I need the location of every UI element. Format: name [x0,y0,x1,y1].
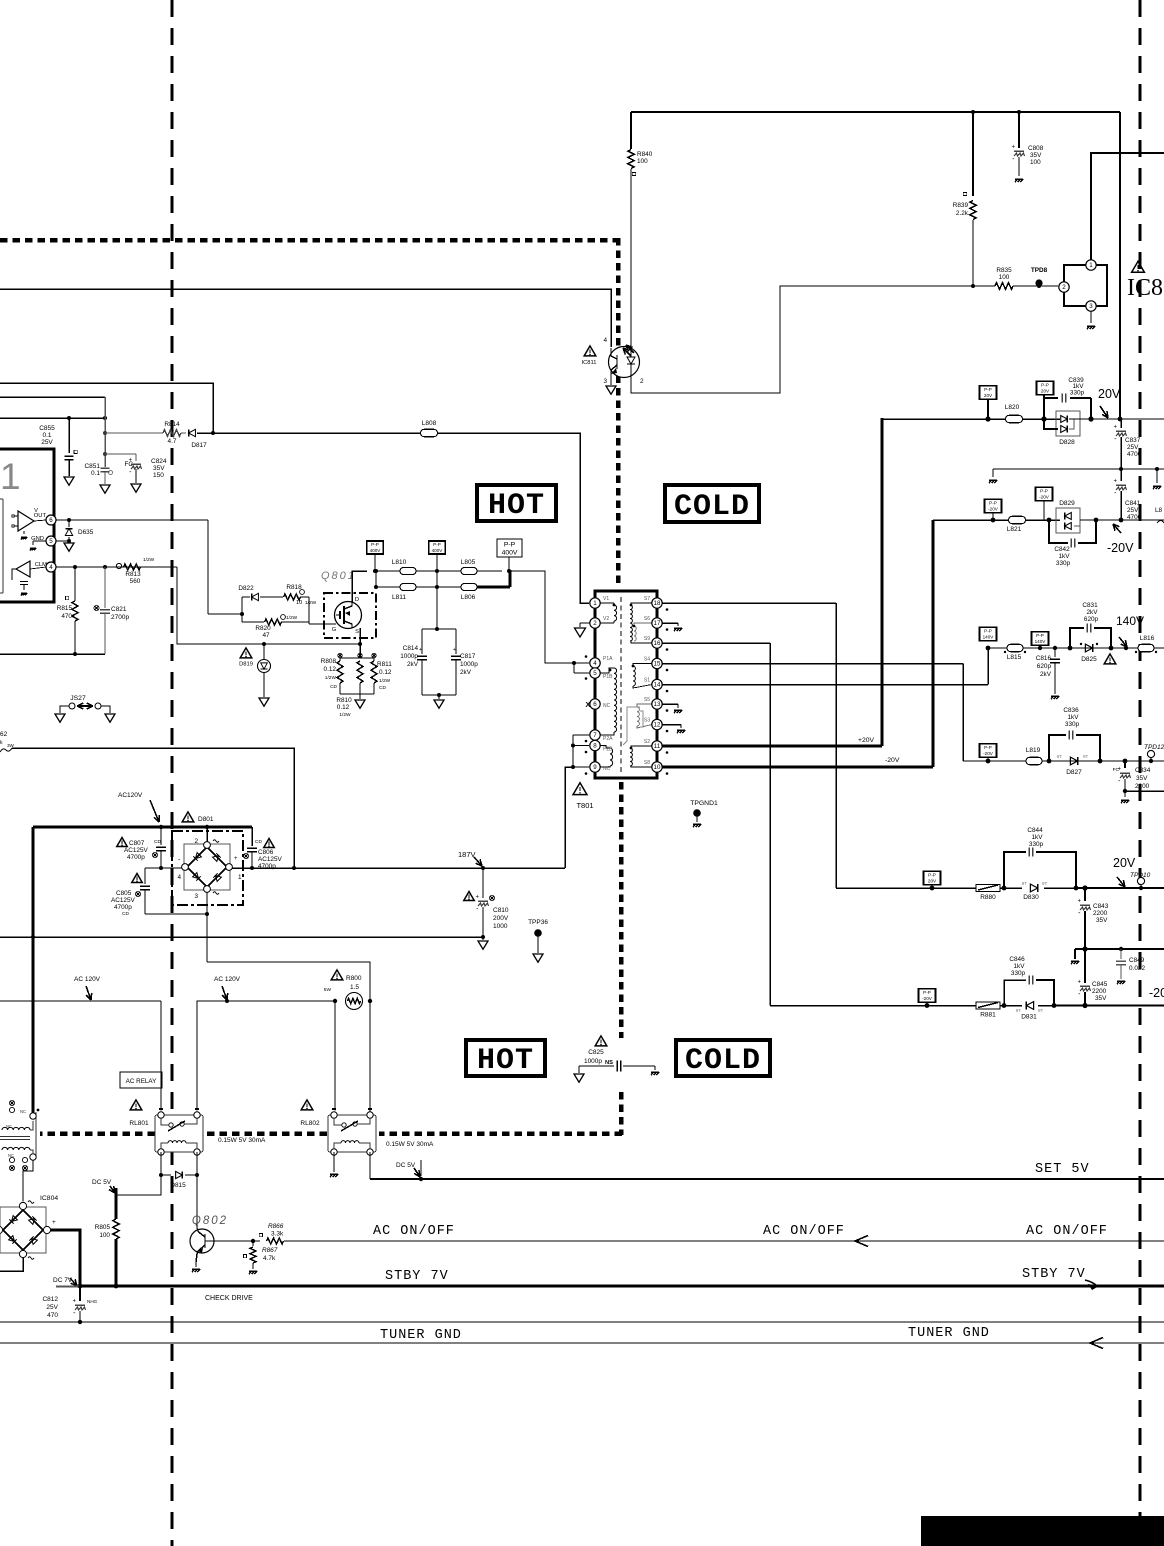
svg-text:AC125V: AC125V [124,847,149,854]
wire T801 pin12 to ground [662,724,681,726]
svg-text:1/2W: 1/2W [143,557,155,563]
svg-text:470: 470 [47,1312,58,1319]
svg-text:2700p: 2700p [111,614,129,621]
svg-text:C855: C855 [39,425,55,432]
svg-text:R818: R818 [286,584,302,591]
capacitor C844 1kV 330p snubber [1004,852,1026,888]
svg-text:35V: 35V [1030,152,1042,159]
resistor R815 470 [74,567,76,601]
junction Q801 source [358,642,362,646]
svg-text:6: 6 [593,701,597,708]
wire Q801 drain to L810/L811 [352,571,367,602]
svg-text:9: 9 [593,764,597,771]
capacitor C842 1kV 330p snubber [1049,520,1068,543]
ground C855 [64,477,74,485]
ground JS27 right [105,714,115,722]
svg-text:X: X [585,700,590,709]
wire from left page to D817 feed [0,383,213,433]
svg-text:COLD: COLD [685,1044,761,1078]
inductor L811 [376,586,400,588]
svg-text:L820: L820 [1005,404,1020,411]
COLD label upper [665,485,759,522]
svg-text:20V: 20V [928,878,937,883]
wire Q801 source down [359,628,361,658]
inductor L816 [1138,644,1154,652]
T801 pin 18 [652,598,662,608]
snubber rail top [422,628,456,630]
junction P-P 20V [985,416,990,421]
resistor R818 10 1/2W [260,596,283,598]
svg-text:25V: 25V [1127,444,1139,451]
svg-text:20V: 20V [1098,387,1121,401]
svg-text:C824: C824 [151,458,167,465]
ground C825 left [578,1066,580,1073]
capacitor C834 35V 2200 electrolytic [1124,761,1126,768]
T801 left winding P2B lower [610,748,613,766]
svg-text:P-P: P-P [1036,633,1044,638]
test point box P-P 140V 2 [1032,632,1049,646]
svg-text:P-P: P-P [984,629,992,634]
svg-text:D801: D801 [198,816,214,823]
diode D825 [1085,644,1092,652]
test point box P-P 400V large [497,539,522,557]
svg-text:STBY 7V: STBY 7V [1022,1267,1086,1282]
svg-text:4: 4 [603,337,607,344]
svg-text:150: 150 [153,472,164,479]
svg-text:NC: NC [603,703,611,709]
svg-text:1kV: 1kV [1031,834,1043,841]
T801 pin 11 [652,741,662,751]
svg-text:C831: C831 [1082,602,1098,609]
wire 140V rail [988,647,1164,649]
junction C837 bottom [1119,467,1123,471]
svg-text:100: 100 [637,158,648,165]
svg-text:1: 1 [0,456,21,497]
svg-text:0.1: 0.1 [91,470,100,477]
svg-text:4: 4 [177,874,181,881]
ground C810 [482,937,484,940]
ground C825 right [654,1066,656,1070]
wire D817 to L808 [213,432,421,434]
svg-text:CD: CD [122,911,129,917]
svg-text:P-P: P-P [504,542,516,549]
svg-text:RL802: RL802 [300,1120,320,1127]
svg-text:C849: C849 [1129,957,1145,964]
diode D817 [181,432,186,434]
svg-text:D831: D831 [1021,1014,1037,1021]
wire RL801 right riser to R800 [197,1001,335,1110]
svg-text:CD: CD [255,839,262,845]
T801 pin 6 NC [590,699,600,709]
wire R881 rail [770,1005,980,1007]
ground 20V return right [1156,469,1158,483]
svg-text:R810: R810 [336,697,352,704]
svg-text:C836: C836 [1063,707,1079,714]
capacitor C841 25V 4700 electrolytic [1120,469,1122,481]
resistor R867 4.7k [252,1241,254,1246]
wire RL801 coil left to D815 [160,1152,162,1175]
test point box P-P 20V above D828 [1037,381,1054,395]
dual diode D829 [1056,508,1080,533]
svg-text:AC ON/OFF: AC ON/OFF [373,1224,455,1239]
protection device D819 [240,648,252,658]
svg-text:S9: S9 [644,636,650,642]
wire from left page at y397 [0,396,105,398]
fusible resistor R800 1.5 5W [331,970,343,980]
STBY 7V arrow [1085,1280,1097,1286]
svg-text:400V: 400V [432,548,444,553]
svg-text:4: 4 [593,660,597,667]
svg-text:C851: C851 [84,463,100,470]
svg-text:-20V: -20V [1107,541,1134,555]
wire gate node B to Q801 gate [308,597,310,624]
wire top rail corner down to 20V rail [1119,112,1121,419]
svg-text:R820: R820 [255,625,271,632]
svg-text:G: G [332,627,337,633]
svg-text:1/2W: 1/2W [286,615,298,621]
ground C816 [1051,695,1059,697]
junction C834 tap [1123,759,1128,764]
junction pin7/8 link [571,744,575,748]
svg-text:C821: C821 [111,606,127,613]
ground C834 [1124,791,1126,797]
svg-text:400V: 400V [370,548,382,553]
junction D831 input [1002,1003,1007,1008]
svg-text:1: 1 [593,600,597,607]
capacitor C831 2kV 620p snubber [1070,628,1084,648]
HOT/COLD isolation dotted border right edge upper [616,238,621,586]
svg-text:C808: C808 [1028,145,1044,152]
T801 polarity dots [666,608,669,611]
connector pin 1 [1086,260,1096,270]
svg-text:TPD8: TPD8 [1031,267,1048,274]
wire Q802 collector [197,1228,198,1230]
inductor L819 [1026,757,1042,765]
svg-text:+: + [1011,145,1015,151]
test point box P-P 400V small 1 [367,541,384,554]
wire AC hot rail riser thick [32,827,35,1116]
svg-text:1.5: 1.5 [350,984,359,991]
test point box P-P -20V on R881 rail [919,989,936,1003]
wire pin6 node down to gate network [207,520,209,614]
svg-text:4: 4 [49,564,53,571]
svg-text:D822: D822 [238,585,254,592]
resistor R840 100 [630,112,632,149]
D801 pin 1 [226,864,233,871]
svg-text:OUT: OUT [34,513,47,519]
wire T801 pin15 run [662,663,963,665]
svg-text:+: + [419,647,422,653]
COLD label lower [676,1040,770,1076]
wire AC line to bridge node [12,748,294,868]
svg-text:2: 2 [194,838,198,845]
svg-text:R800: R800 [346,975,362,982]
wire left page to IC811 collector [0,289,611,347]
svg-text:1000p: 1000p [460,661,478,668]
svg-text:20V: 20V [1041,388,1050,393]
svg-text:+: + [72,1299,76,1305]
HOT/COLD isolation dotted border right edge middle [619,782,624,1038]
svg-text:R881: R881 [980,1012,996,1019]
junction C855 top [67,416,71,420]
svg-text:-20V: -20V [983,751,994,756]
diode D830 [1030,884,1037,892]
capacitor C816 620p 2kV [1054,648,1056,657]
svg-text:4.7k: 4.7k [263,1255,276,1262]
junction DC7V node [78,1284,83,1289]
svg-text:2: 2 [640,378,644,385]
svg-text:COLD: COLD [674,490,750,524]
svg-text:187V: 187V [458,850,476,859]
svg-text:C810: C810 [493,907,509,914]
inductor L805 [461,568,477,575]
junction C843 top [1082,885,1087,890]
relay RL802 [301,1100,313,1110]
svg-text:IC811: IC811 [581,360,596,366]
HOT/COLD isolation dotted border right edge lower [619,1092,624,1135]
source resistor rail bottom [340,693,374,695]
svg-text:P-P: P-P [1040,489,1048,494]
resistor R810 0.12 1/2W [358,653,362,657]
wire RL802 coil right to SET5V rail [369,1152,371,1179]
connector pin 2 [1059,282,1069,292]
junction D827 input [1047,759,1052,764]
svg-text:AC125V: AC125V [258,856,283,863]
svg-text:DC 5V: DC 5V [396,1162,416,1169]
junction C810 bottom [481,935,485,939]
wire T801 pin17 to ground [662,622,678,624]
transformer T801 core dashed line [620,597,622,773]
svg-text:D825: D825 [1081,656,1097,663]
svg-text:620p: 620p [1084,616,1099,623]
svg-text:+: + [1113,425,1117,431]
svg-text:2.2k: 2.2k [956,210,969,217]
svg-text:P-P: P-P [928,873,936,878]
svg-text:P-P: P-P [371,542,379,547]
svg-text:+: + [1077,899,1081,905]
snubber rail bottom [422,694,456,696]
svg-text:CD: CD [330,684,337,690]
inductor L806 [461,584,477,591]
junction C845 bottom [1082,1003,1087,1008]
svg-text:25V: 25V [41,439,53,446]
svg-text:2kV: 2kV [407,661,419,668]
black block bottom right [921,1516,1164,1546]
junction C843 bottom [1082,946,1087,951]
wire T801 pin18 run [662,602,836,604]
svg-text:T801: T801 [576,801,593,810]
HOT label upper [477,485,556,521]
svg-text:L819: L819 [1026,747,1041,754]
svg-text:D815: D815 [170,1182,186,1189]
test point box P-P -20V above D829 [1036,487,1053,501]
wire T801 pin14 run [662,684,988,686]
svg-text:R880: R880 [980,894,996,901]
connector IC8 box [1064,265,1107,306]
svg-text:13: 13 [654,701,661,708]
svg-text:L821: L821 [1007,526,1022,533]
svg-text:NS: NS [605,1060,613,1066]
svg-text:0.022: 0.022 [1129,965,1145,972]
svg-text:-20V: -20V [922,996,933,1001]
svg-text:3: 3 [194,893,198,900]
diode D827 [1070,757,1077,765]
svg-text:5: 5 [593,670,597,677]
junction P-P -20V [991,518,996,523]
capacitor C825 1000p NS isolation [595,1036,607,1046]
diode D822 [242,596,250,598]
junction D830 output [1074,886,1079,891]
svg-text:9T: 9T [1083,754,1089,759]
T801 pin 14 [652,679,662,689]
svg-text:R813: R813 [125,571,141,578]
resistor R805 100 [113,1219,119,1239]
svg-text:12: 12 [654,722,661,729]
svg-text:+: + [234,856,238,862]
wire CLM pin4 run [56,566,177,568]
svg-text:C805: C805 [116,890,132,897]
svg-text:L8: L8 [1155,507,1163,514]
ground below D635 [64,543,74,551]
ground D819 [259,698,269,706]
snubber riser [436,571,438,629]
svg-text:D829: D829 [1059,500,1075,507]
ground snubber [434,700,444,708]
svg-text:200V: 200V [493,915,509,922]
svg-text:R840: R840 [637,151,653,158]
svg-text:DC 7V: DC 7V [53,1277,73,1284]
wire D815 to DC5V rail [116,1175,161,1195]
svg-text:330p: 330p [1065,721,1080,728]
svg-text:15: 15 [654,661,661,668]
junction primary node [507,569,511,573]
capacitor C843 2200 35V electrolytic [1084,888,1086,901]
svg-text:IC8: IC8 [1127,275,1163,301]
svg-text:TPGND1: TPGND1 [690,800,718,807]
test point box P-P 400V small 2 [429,541,446,554]
svg-text:TUNER GND: TUNER GND [908,1326,990,1341]
svg-text:330p: 330p [1011,970,1026,977]
svg-text:+: + [475,895,479,901]
svg-text:4700: 4700 [1127,514,1142,521]
test point box P-P 20V on R880 rail [924,871,941,885]
wire C805 return to pin3 node [145,913,207,915]
capacitor C836 1kV 330p snubber [1049,735,1066,761]
capacitor C849 0.022 [1120,949,1122,959]
capacitor C846 1kV 330p snubber [1004,980,1026,1006]
wire RL801 right to Q802 collector [196,1175,198,1229]
junction D825 output [1109,646,1114,651]
svg-text:HOT: HOT [477,1044,534,1078]
wire top supply rail [631,111,1120,113]
junction 140V riser top [986,646,991,651]
T801 pin 4 [590,658,600,668]
svg-text:-20V: -20V [1039,494,1050,499]
junction R800 left [333,999,337,1003]
svg-text:+: + [1117,767,1121,773]
svg-text:S7: S7 [644,596,650,602]
wire C834 return [1125,790,1164,792]
wire T801 pin13 to ground [662,703,678,705]
AC ON/OFF arrow [855,1236,868,1247]
svg-text:2kV: 2kV [460,669,472,676]
inductor L808 [421,429,438,437]
svg-text:9T: 9T [1057,754,1063,759]
svg-text:TPP36: TPP36 [528,919,548,926]
T801 internal link [623,707,640,745]
L819 riser [962,664,964,762]
wire 20V return rail 2 [1075,948,1164,950]
ground T801 pin2 [579,623,581,627]
svg-text:3: 3 [1089,303,1093,310]
svg-text:CD: CD [379,685,386,691]
svg-text:P1B: P1B [603,674,613,680]
svg-text:P2A: P2A [603,736,613,742]
R881 riser [769,643,771,1006]
svg-text:35V: 35V [1096,917,1108,924]
+20V riser thick [881,418,884,746]
junction AC riser crossing [31,935,35,939]
wire gate node A [208,613,242,615]
svg-text:330p: 330p [1056,560,1071,567]
inductor L821 [1009,516,1026,524]
wire D801 pin3 AC return [207,962,370,1116]
svg-text:NC: NC [603,766,611,772]
svg-text:STBY 7V: STBY 7V [385,1269,449,1284]
transformer T801 outline [595,591,657,778]
thick link L805/L806 to primary node [477,585,510,588]
svg-text:AC RELAY: AC RELAY [126,1078,157,1085]
T801 pin 9 [590,762,600,772]
diode D831 [1026,1002,1033,1010]
wire pin7 to link [573,734,589,736]
ground 20V return left [992,469,994,477]
svg-text:L808: L808 [422,420,437,427]
svg-text:S6: S6 [644,616,650,622]
wire pin9 stub [573,766,589,768]
wire 20V TPD10 rail [1044,887,1076,889]
junction D827 output [1098,759,1103,764]
wire STBY 7V rail thick [56,1285,79,1287]
svg-text:4700p: 4700p [127,854,145,861]
junction top rail R839 [971,110,975,114]
svg-text:AC 120V: AC 120V [74,976,101,983]
inductor L810 [376,570,400,572]
wire IC804 bottom return [0,1258,23,1271]
D801 pin 3 [204,886,211,893]
svg-text:Q801: Q801 [321,570,356,582]
svg-text:D827: D827 [1066,769,1082,776]
HOT/COLD isolation dotted border top edge [0,238,616,243]
svg-text:C817: C817 [460,653,476,660]
ground source resistors [355,700,365,708]
svg-text:NC: NC [6,1124,12,1129]
svg-text:3.3k: 3.3k [271,1231,284,1238]
svg-text:V2: V2 [603,616,609,622]
T801 pin 8 [590,740,600,750]
svg-text:25V: 25V [46,1304,58,1311]
junction P-P L819 [986,759,991,764]
svg-text:C812: C812 [42,1296,58,1303]
svg-text:100: 100 [999,274,1010,281]
wire L821 to D829 [1025,519,1060,521]
inductor L820 [1006,415,1023,423]
svg-text:C806: C806 [258,849,274,856]
junction C816 tap [1053,646,1057,650]
svg-text:D: D [355,597,359,603]
svg-text:100: 100 [99,1232,110,1239]
junction pin3 node [205,912,209,916]
